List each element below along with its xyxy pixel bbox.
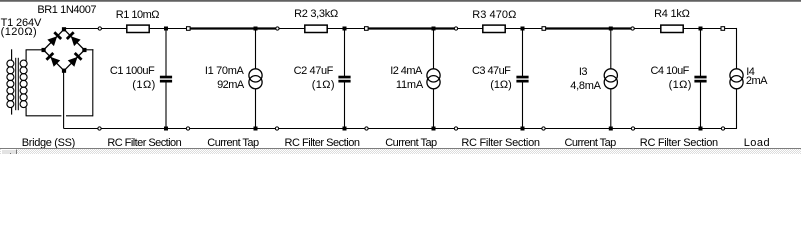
node connector (ground bus) <box>275 127 278 130</box>
junction (top bus) <box>609 27 613 31</box>
wire I3 branch lower <box>610 89 612 129</box>
wire R1 to C1 node to tap input <box>149 28 188 30</box>
wire top net: bridge output to R1 <box>64 28 127 30</box>
wire I2 branch lower <box>433 89 435 129</box>
label I1 92mA <box>217 80 244 91</box>
wire secondary bottom to bridge AC2 (with crossover gap) <box>26 49 94 116</box>
section label RC Filter Section 1 <box>107 138 181 149</box>
label T1 264V <box>1 18 42 29</box>
diode BR1 D1 (AC1 to DC+) <box>44 29 64 50</box>
label C2 47uF <box>294 66 333 77</box>
node connector (ground bus) <box>365 127 368 130</box>
capacitor C4 <box>694 76 706 83</box>
wire to R4 <box>633 28 661 30</box>
wire C2 branch upper <box>344 29 346 77</box>
node connector (ground bus) <box>454 127 457 130</box>
diode BR1 D4 (DC- to AC2) <box>64 50 84 71</box>
transformer T1 core <box>16 58 19 110</box>
diode BR1 D2 (AC2 to DC+) <box>64 29 84 50</box>
transformer T1 secondary winding <box>20 50 27 116</box>
wire current tap 1 (thick net) <box>186 27 279 29</box>
label BR1 1N4007 <box>37 5 96 16</box>
current source I4 <box>730 69 743 89</box>
wire to R2 <box>277 28 304 30</box>
current source I3 <box>604 69 617 89</box>
resistor R1 <box>127 25 149 32</box>
junction (top bus) <box>699 27 703 31</box>
section label Current Tap 3 <box>565 138 616 149</box>
node bridge DC- (bottom vertex) <box>62 69 66 73</box>
node bridge AC1 (left vertex) <box>42 48 46 52</box>
wire R4 to load corner <box>683 28 736 30</box>
label I4 2mA <box>746 76 767 87</box>
node connector (top, square) <box>721 27 725 31</box>
node connector (ground bus) <box>98 127 101 130</box>
junction (ground bus) <box>164 127 168 131</box>
node connector (ground bus) <box>631 127 634 130</box>
label C4 value (1Ω) <box>669 80 692 91</box>
wire C2 branch lower <box>344 82 346 128</box>
label C3 47uF <box>472 66 510 77</box>
node connector (ground bus) <box>186 127 189 130</box>
label I2 4mA <box>390 66 422 77</box>
node bridge AC2 (right vertex) <box>82 48 86 52</box>
label R1 10mΩ <box>116 10 159 21</box>
label R4 1kΩ <box>654 9 690 20</box>
label R2 3,3kΩ <box>294 9 338 20</box>
node connector (top, square) <box>365 27 369 31</box>
resistor R4 <box>661 25 683 32</box>
section label RC Filter Section 4 <box>640 138 718 149</box>
wire C1 branch lower <box>165 82 167 128</box>
junction (top bus) <box>254 27 258 31</box>
junction (top bus) <box>521 27 525 31</box>
wire load drop (top) <box>736 28 738 69</box>
junction (ground bus) <box>254 127 258 131</box>
wire I2 branch upper <box>433 29 435 69</box>
section label Load <box>744 138 770 149</box>
node bridge DC+ (top vertex) <box>62 27 66 31</box>
node connector (top, circle) <box>276 27 279 30</box>
node connector (top, square) <box>187 27 191 31</box>
label I4 <box>746 67 754 78</box>
wire I1 branch lower <box>255 89 257 129</box>
diode BR1 D3 (DC- to AC1) <box>44 50 64 71</box>
section label Current Tap 2 <box>385 138 436 149</box>
label C4 10uF <box>651 66 689 77</box>
capacitor C2 <box>338 76 350 83</box>
window top border <box>0 0 801 2</box>
node connector (top, square) <box>542 27 546 31</box>
label I2 11mA <box>396 80 423 91</box>
junction (ground bus) <box>699 127 703 131</box>
wire current tap 2 (thick net) <box>364 27 458 29</box>
capacitor C3 <box>516 76 528 83</box>
wire bridge DC- to ground bus <box>63 71 65 129</box>
capacitor C1 <box>160 76 172 83</box>
wire C4 branch lower <box>700 82 702 128</box>
wire C1 branch upper <box>165 29 167 77</box>
wire secondary top to bridge AC1 <box>26 49 44 51</box>
horizontal scrollbar (partially visible) <box>0 148 801 154</box>
resistor R3 <box>483 25 505 32</box>
wire C3 branch upper <box>522 29 524 77</box>
label C1 value (1Ω) <box>132 80 155 91</box>
label C3 value (1Ω) <box>490 80 512 91</box>
wire R3 to tap 3 input <box>505 28 544 30</box>
resistor R2 <box>305 25 327 32</box>
wire ground bus <box>64 128 737 130</box>
wire C3 branch lower <box>522 82 524 128</box>
section label Bridge (SS) <box>22 138 75 149</box>
label I3 <box>579 67 587 78</box>
label C2 value (1Ω) <box>312 80 335 91</box>
wire R2 to tap 2 input <box>327 28 366 30</box>
node connector (top, circle) <box>454 27 457 30</box>
current source I2 <box>427 69 440 89</box>
junction (ground bus) <box>432 127 436 131</box>
node connector (top, circle) <box>98 27 101 30</box>
schematic canvas <box>0 0 801 154</box>
section label RC Filter Section 2 <box>285 138 360 149</box>
node connector (top, circle) <box>631 27 634 30</box>
label R3 470Ω <box>472 10 516 21</box>
wire I1 branch upper <box>255 29 257 69</box>
section label Current Tap 1 <box>207 138 258 149</box>
wire C4 branch upper <box>700 29 702 77</box>
wire load drop (bottom) <box>736 89 738 129</box>
label I3 4,8mA <box>570 81 600 92</box>
junction (ground bus) <box>521 127 525 131</box>
wire I3 branch upper <box>610 29 612 69</box>
transformer T1 primary winding <box>7 49 14 114</box>
junction (ground bus) <box>609 127 613 131</box>
junction (ground bus) <box>343 127 347 131</box>
node connector (ground bus) <box>542 127 545 130</box>
wire current tap 3 (thick net) <box>542 27 635 29</box>
label (120Ω) <box>1 27 38 38</box>
junction (top bus) <box>164 27 168 31</box>
junction (top bus) <box>343 27 347 31</box>
wire to R3 <box>456 28 483 30</box>
label I1 70mA <box>205 66 244 77</box>
current source I1 <box>249 69 262 89</box>
node connector (ground bus) <box>721 127 724 130</box>
label C1 100uF <box>110 66 154 77</box>
junction (top bus) <box>432 27 436 31</box>
section label RC Filter Section 3 <box>461 138 539 149</box>
